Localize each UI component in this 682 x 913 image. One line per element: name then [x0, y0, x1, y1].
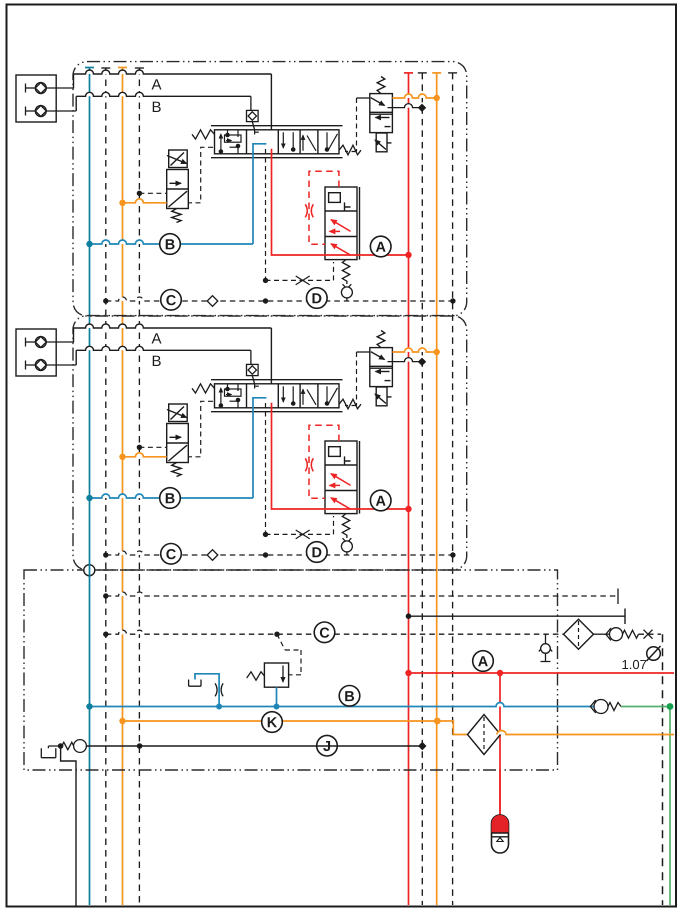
wire C return line (dashed with hops) — [106, 630, 564, 634]
end cap — [624, 609, 626, 625]
svg-text:J: J — [323, 739, 331, 755]
relief valve pilot (dashed) — [277, 634, 301, 675]
node — [103, 593, 108, 598]
nodes on J — [58, 743, 64, 749]
orange out of filter (hop over red) — [497, 731, 674, 735]
wire tank dashed drop (right) — [662, 634, 664, 905]
net T2 (dashed bus 4) — [448, 73, 457, 905]
net P (red bus) — [404, 73, 413, 905]
label circle K — [262, 712, 283, 733]
nodes orange — [119, 718, 125, 724]
valve block 2 — [16, 316, 467, 570]
wire drain drop — [61, 746, 76, 906]
wire green line to tank port — [621, 707, 670, 906]
svg-text:B: B — [344, 689, 355, 705]
svg-text:A: A — [478, 654, 489, 670]
plugged port X — [644, 630, 653, 639]
net pilot T2 (dashed bus 2) — [135, 68, 144, 905]
pump unit boundary (dash-dot box) — [24, 570, 558, 770]
wire red drop to accumulator — [499, 673, 501, 815]
wire A supply (red) — [409, 672, 675, 674]
node — [103, 632, 108, 637]
check valve after filter — [594, 633, 610, 635]
node red 2 — [497, 670, 503, 676]
node red — [405, 670, 411, 676]
tank symbol — [189, 680, 201, 687]
net P-pilot (orange bus 1) — [118, 68, 127, 906]
svg-text:C: C — [319, 626, 330, 642]
restrictor on bleed — [215, 683, 223, 696]
test port with check ball — [545, 634, 547, 643]
svg-text:1.07: 1.07 — [621, 657, 646, 672]
label circle A — [473, 651, 494, 672]
net LS (teal bus) — [85, 68, 94, 906]
wire solid test line from P — [409, 615, 626, 617]
tank bleed with restrictor (blue) — [195, 674, 219, 707]
check valve on B line — [590, 700, 595, 713]
relief to B line (blue) — [276, 687, 278, 706]
wire J line (black) — [86, 745, 422, 747]
bus lines group placeholder — [85, 68, 457, 906]
pressure filter — [468, 715, 501, 755]
net P2 (orange bus 2) — [432, 73, 441, 905]
node green — [667, 703, 674, 710]
label circle C — [314, 622, 335, 643]
valve block 1 — [16, 62, 467, 316]
node pilot relief — [274, 632, 279, 637]
boundary port circle on LS line — [84, 565, 95, 576]
wire K line (orange) — [123, 721, 468, 735]
node on red bus — [406, 613, 412, 619]
accumulator — [499, 770, 501, 815]
bottom section placeholder — [24, 564, 674, 907]
svg-text:K: K — [267, 715, 278, 731]
net pilot T (dashed bus 1) — [101, 68, 110, 905]
return filter — [564, 619, 594, 649]
wire B line (blue with hop over red) — [90, 703, 595, 707]
net T (dashed bus 3) — [418, 73, 427, 905]
tank + spring check (drain) — [48, 746, 60, 748]
end cap — [617, 589, 619, 605]
label circle J — [317, 735, 338, 756]
nodes on B line — [86, 703, 92, 709]
label circle B — [339, 686, 360, 707]
wire dashed line to gauge ports (with hops) — [106, 592, 618, 596]
teal bus through port circle — [89, 564, 91, 578]
system relief valve — [264, 663, 288, 687]
